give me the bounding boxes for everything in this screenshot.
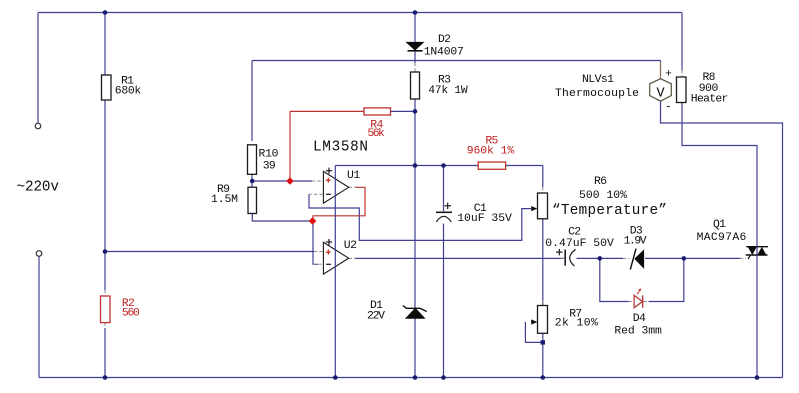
- svg-text:Thermocouple: Thermocouple: [555, 88, 639, 100]
- wire D4 branch: [600, 258, 629, 301]
- svg-text:0.47uF 50V: 0.47uF 50V: [545, 238, 614, 250]
- wire U1 plus input: [252, 180, 312, 182]
- svg-text:1.9V: 1.9V: [624, 235, 647, 247]
- wire top rail: [38, 12, 682, 14]
- pin stub U2 output: [349, 257, 356, 259]
- terminal 2: [36, 251, 42, 257]
- wire power rail y165: [335, 165, 478, 167]
- wire U1 output feedback red: [313, 187, 365, 221]
- svg-text:1.5M: 1.5M: [211, 194, 238, 206]
- svg-text:R10: R10: [259, 149, 279, 161]
- svg-text:C2: C2: [568, 227, 581, 239]
- diode D2: [407, 42, 424, 50]
- terminal 1: [35, 123, 41, 129]
- pin stub R3 top: [414, 63, 416, 72]
- thermocouple NLVs1: [660, 62, 662, 79]
- svg-text:V: V: [657, 87, 666, 102]
- potentiometer R7: [538, 306, 548, 334]
- pin stub D3 left: [623, 257, 630, 259]
- wire U2 minus input: [313, 221, 318, 264]
- svg-text:1N4007: 1N4007: [424, 47, 464, 59]
- red junction diamonds: [286, 177, 316, 225]
- wire terminal 2 drop: [38, 257, 40, 378]
- wire left terminal 1 drop: [37, 13, 39, 124]
- svg-text:NLVs1: NLVs1: [582, 74, 614, 86]
- wire R7 wiper link: [525, 322, 542, 342]
- pin stub Q1 gate: [740, 257, 746, 259]
- wire mid rail y60: [252, 60, 661, 62]
- pin stub R2 leads: [104, 290, 106, 296]
- wire D2 R3 D1 column: [414, 13, 416, 43]
- triac Q1: [746, 246, 768, 248]
- wire gate to Q1: [684, 257, 740, 259]
- pin stub R7 top: [542, 300, 544, 306]
- wire R1 column: [104, 13, 106, 76]
- pin stub R8 top: [681, 70, 683, 77]
- svg-text:MAC97A6: MAC97A6: [697, 232, 747, 244]
- svg-text:R6: R6: [594, 176, 607, 188]
- capacitor C1: [436, 211, 452, 213]
- resistor R4: [364, 108, 391, 115]
- resistor R8: [677, 77, 687, 103]
- svg-text:500 10%: 500 10%: [579, 190, 627, 202]
- svg-text:+: +: [665, 69, 672, 81]
- gray pin stubs: [105, 63, 746, 328]
- resistor R3: [411, 72, 420, 99]
- wire bottom rail: [39, 377, 783, 379]
- wire R4 left red drop to U1 plus: [290, 110, 364, 112]
- wire R8 column: [681, 13, 683, 72]
- capacitor C2: [564, 250, 566, 266]
- zener D1: [406, 309, 425, 319]
- wire C1 column: [443, 166, 445, 212]
- svg-text:22V: 22V: [367, 311, 385, 323]
- svg-text:560: 560: [122, 307, 140, 319]
- wire thermocouple top: [660, 61, 662, 77]
- svg-text:U2: U2: [344, 240, 357, 252]
- resistor R2: [101, 296, 111, 323]
- svg-text:Heater: Heater: [691, 93, 729, 105]
- wire thermocouple bottom to right column: [661, 101, 783, 377]
- svg-text:39: 39: [263, 160, 276, 172]
- wire R9 bottom to diamond: [252, 214, 312, 222]
- wire U1 minus net to R6 wiper: [309, 194, 531, 240]
- wire U2 plus input from R2 node: [105, 251, 314, 253]
- wire D3 to right node: [645, 257, 684, 259]
- svg-text:Q1: Q1: [713, 219, 726, 231]
- red wires: [290, 111, 365, 221]
- pin stub U2 minus: [313, 263, 323, 265]
- op-amp U1: [323, 171, 348, 203]
- wire U2 output to C2: [355, 257, 564, 259]
- svg-text:-: -: [665, 102, 672, 114]
- wire R10 column: [251, 61, 253, 142]
- resistor R10: [248, 145, 257, 175]
- svg-text:“Temperature”: “Temperature”: [552, 203, 667, 219]
- resistor R1: [102, 75, 112, 100]
- pin stub U1 output: [349, 186, 356, 188]
- svg-text:10uF 35V: 10uF 35V: [457, 213, 512, 225]
- svg-text:~220v: ~220v: [17, 180, 60, 196]
- svg-text:2k 10%: 2k 10%: [555, 318, 598, 330]
- svg-text:47k 1W: 47k 1W: [428, 85, 468, 97]
- pin stub U1 inputs: [312, 180, 323, 182]
- pin stub D4 leads: [629, 301, 635, 303]
- wire U1 power column over op-amps: [334, 166, 336, 378]
- svg-text:960k 1%: 960k 1%: [467, 145, 515, 157]
- svg-text:D4: D4: [633, 313, 646, 325]
- op-amp U2: [323, 242, 348, 274]
- led D4: [634, 295, 643, 307]
- svg-text:Red 3mm: Red 3mm: [614, 325, 662, 337]
- svg-text:LM358N: LM358N: [313, 140, 368, 156]
- wire Q1 to bottom rail: [756, 255, 758, 378]
- wire R4 right lead: [391, 110, 416, 112]
- wire C2 to D3 node: [577, 257, 624, 259]
- svg-text:56k: 56k: [367, 128, 385, 140]
- wire R6 R7 column: [542, 166, 544, 188]
- pin stub R6 top: [542, 187, 544, 193]
- svg-text:680k: 680k: [115, 86, 142, 98]
- potentiometer R6: [538, 193, 548, 219]
- zener D3: [635, 251, 644, 268]
- resistor R9: [248, 187, 257, 213]
- svg-text:U1: U1: [347, 170, 360, 182]
- svg-text:D2: D2: [438, 34, 451, 46]
- resistor R5: [478, 162, 505, 169]
